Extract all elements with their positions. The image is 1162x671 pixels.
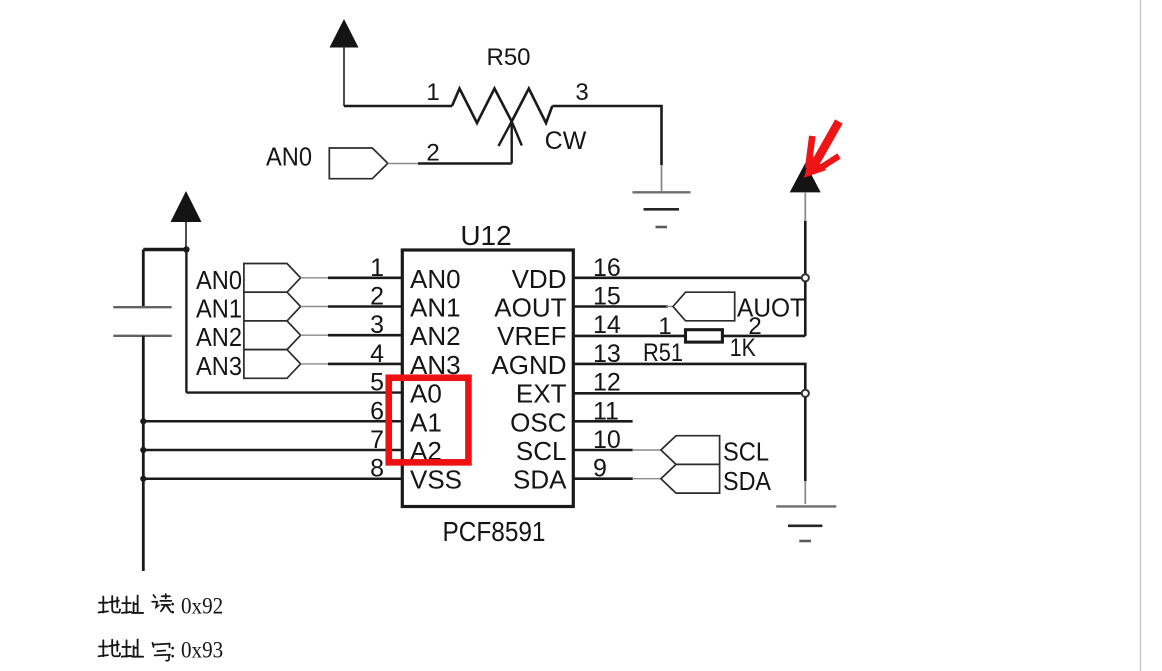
right pin numbers 16-9 bbox=[593, 254, 621, 483]
connector AN3 (chip) bbox=[244, 350, 301, 379]
svg-text:0x93: 0x93 bbox=[181, 638, 223, 663]
wire pin10 SCL bbox=[573, 449, 633, 452]
VCC arrow (above chip left rail) bbox=[171, 191, 202, 250]
svg-text:AN1: AN1 bbox=[410, 293, 461, 323]
ground (below R50 pin3) bbox=[633, 192, 691, 227]
left rail vertical wire (upper) bbox=[142, 250, 145, 308]
svg-text:8: 8 bbox=[370, 455, 384, 483]
chip inner right labels bbox=[491, 264, 567, 495]
svg-text:AN3: AN3 bbox=[196, 351, 242, 381]
wire pin6 A1 bbox=[143, 420, 402, 423]
wire pin16 VDD bbox=[573, 276, 805, 279]
svg-text::: : bbox=[170, 594, 176, 619]
svg-text:R50: R50 bbox=[486, 44, 530, 71]
left rail vertical wire (lower) bbox=[142, 336, 145, 571]
svg-text:3: 3 bbox=[370, 311, 384, 339]
connector SDA bbox=[661, 464, 720, 493]
wire pin11 OSC stub bbox=[573, 420, 632, 423]
connector AN0 (top, to R50 pin2) bbox=[329, 148, 388, 179]
wire pin8 VSS bbox=[143, 477, 402, 480]
svg-text:2: 2 bbox=[370, 283, 384, 311]
wire vertical to A0 pin bbox=[185, 250, 187, 393]
op chip U12 body bbox=[402, 250, 573, 507]
svg-text:SDA: SDA bbox=[513, 465, 567, 495]
connector AN0 (chip) bbox=[244, 264, 301, 293]
svg-text:EXT: EXT bbox=[516, 379, 567, 409]
note line 1: 地址 读: 0x92 bbox=[99, 594, 172, 613]
chip inner left labels bbox=[410, 264, 462, 495]
svg-text:AN0: AN0 bbox=[410, 264, 461, 294]
wire pin9 SDA bbox=[573, 477, 633, 480]
red annotation arrow bbox=[808, 122, 839, 170]
junction ring pin12 bbox=[802, 390, 809, 397]
wire top-left corner bbox=[143, 248, 186, 251]
svg-text:AOUT: AOUT bbox=[494, 293, 566, 323]
hanzi DI (earth) bbox=[99, 640, 120, 656]
wire A0 (pin5) bbox=[186, 391, 402, 393]
svg-text:3: 3 bbox=[575, 79, 588, 106]
svg-text:SCL: SCL bbox=[516, 436, 567, 466]
VCC arrow (top right) bbox=[790, 163, 821, 274]
svg-text:4: 4 bbox=[370, 340, 384, 368]
wire pin7 A2 bbox=[143, 449, 402, 452]
svg-text:SDA: SDA bbox=[723, 466, 772, 496]
VCC arrow (top left, above R50 pin1) bbox=[330, 19, 359, 106]
capacitor plates bbox=[113, 307, 171, 336]
connector AN1 (chip) bbox=[244, 292, 301, 321]
hanzi DU (read) bbox=[152, 594, 171, 612]
svg-text:VREF: VREF bbox=[497, 321, 566, 351]
hanzi ZHI (site) bbox=[122, 639, 143, 656]
svg-text:A1: A1 bbox=[410, 407, 442, 437]
svg-text:CW: CW bbox=[545, 127, 587, 155]
resistor R51 body bbox=[686, 330, 723, 342]
note line 2: 地址 写: 0x93 bbox=[99, 639, 170, 660]
svg-text:VSS: VSS bbox=[410, 465, 462, 495]
red highlight rectangle around A0-A2 bbox=[389, 378, 469, 463]
svg-text:AN0: AN0 bbox=[266, 142, 312, 172]
svg-text:AN2: AN2 bbox=[196, 322, 242, 352]
wire R51 to VCC rail bbox=[722, 335, 805, 338]
wire pin2 bbox=[301, 306, 330, 308]
svg-text:VDD: VDD bbox=[512, 264, 567, 294]
hanzi DI (earth) bbox=[99, 596, 120, 612]
svg-text:1: 1 bbox=[426, 79, 439, 106]
svg-text:PCF8591: PCF8591 bbox=[443, 516, 546, 547]
wire pin12 EXT bbox=[573, 392, 805, 395]
wire pin2 of R50 bbox=[388, 163, 420, 165]
svg-text:A0: A0 bbox=[410, 379, 442, 409]
svg-text:AUOT: AUOT bbox=[737, 293, 805, 323]
wire ground rail bbox=[804, 397, 807, 481]
svg-text:6: 6 bbox=[370, 397, 384, 425]
wire pin1 bbox=[301, 277, 330, 279]
svg-text:OSC: OSC bbox=[510, 407, 566, 437]
page edge line bbox=[1140, 0, 1142, 671]
connector AN2 (chip) bbox=[244, 321, 301, 350]
svg-text:SCL: SCL bbox=[723, 437, 769, 467]
junction dot bbox=[183, 246, 189, 252]
junction dots on left rail bbox=[140, 418, 146, 424]
connector SCL bbox=[661, 436, 720, 465]
svg-text:AN2: AN2 bbox=[410, 321, 461, 351]
resistor R50 zigzag body bbox=[452, 89, 552, 124]
ground (right) bbox=[776, 506, 836, 541]
svg-text:AN0: AN0 bbox=[196, 265, 242, 295]
svg-text:1K: 1K bbox=[730, 334, 756, 362]
svg-text:U12: U12 bbox=[460, 220, 511, 251]
svg-text:5: 5 bbox=[370, 369, 384, 397]
wire VCC rail down to VREF bbox=[804, 282, 807, 336]
svg-text::: : bbox=[170, 638, 176, 663]
connector AUOT bbox=[673, 292, 735, 321]
svg-text:0x92: 0x92 bbox=[181, 594, 223, 619]
svg-text:1: 1 bbox=[370, 254, 384, 282]
hanzi XIE (write) bbox=[152, 643, 170, 661]
wire pin3 bbox=[301, 334, 330, 336]
wire pin13 AGND bbox=[573, 364, 805, 393]
left pin numbers 1-8 bbox=[370, 254, 384, 483]
wire pin3 to ground bbox=[552, 106, 661, 165]
svg-text:7: 7 bbox=[370, 426, 384, 454]
wire pin1 of R50 bbox=[344, 105, 452, 108]
svg-text:1: 1 bbox=[658, 313, 671, 340]
junction ring pin16 bbox=[802, 274, 809, 281]
wire pin14 VREF to R51 bbox=[573, 335, 685, 338]
svg-text:AN1: AN1 bbox=[196, 294, 242, 324]
R50 wiper arrow (pin 2) bbox=[499, 122, 522, 164]
svg-text:AGND: AGND bbox=[491, 350, 566, 380]
wire pin15 AOUT bbox=[573, 305, 668, 308]
hanzi ZHI (site) bbox=[122, 596, 143, 613]
wire pin4 bbox=[301, 363, 330, 365]
